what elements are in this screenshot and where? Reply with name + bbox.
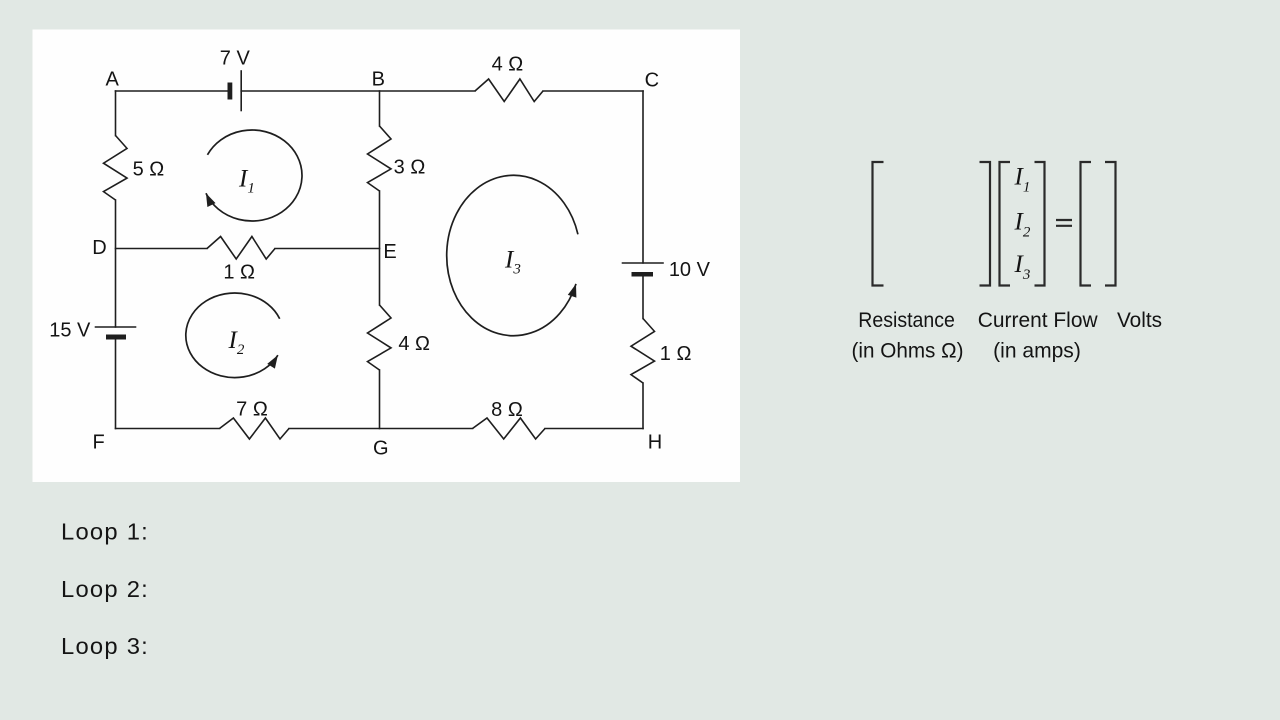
svg-text:5 Ω: 5 Ω	[133, 159, 165, 181]
wire A to battery B1 (top left)	[116, 90, 228, 92]
wire resistor 1ohm to E	[275, 248, 380, 250]
matrix bracket right of resistance matrix	[980, 162, 991, 286]
resistor R-GH 8ohm	[473, 418, 546, 439]
wire battery B3 to resistor 1ohm right	[642, 277, 644, 319]
wire resistor to H	[642, 383, 644, 429]
matrix bracket left of current matrix	[1000, 162, 1011, 286]
svg-text:10 V: 10 V	[669, 259, 711, 281]
matrix bracket right of volts matrix	[1105, 162, 1116, 286]
matrix bracket right of current matrix	[1035, 162, 1045, 286]
svg-text:7 V: 7 V	[220, 48, 251, 70]
resistor R-FG 7ohm	[220, 418, 290, 439]
svg-text:Loop 2:: Loop 2:	[61, 576, 149, 602]
wire resistor 5ohm to D to battery B2	[115, 200, 117, 327]
svg-text:D: D	[92, 237, 106, 259]
wire battery B2 to F	[115, 340, 117, 429]
svg-text:B: B	[372, 68, 385, 90]
wire C down to battery B3	[642, 91, 644, 263]
loop arrow I2 (counterclockwise)	[186, 293, 280, 378]
svg-text:A: A	[106, 69, 120, 91]
resistor R-CH 1ohm (right)	[631, 319, 655, 384]
svg-text:H: H	[648, 431, 662, 453]
svg-text:Resistance: Resistance	[858, 309, 955, 332]
wire B down to resistor 3ohm	[379, 91, 381, 126]
svg-text:7 Ω: 7 Ω	[236, 399, 268, 421]
resistor R-EG 4ohm (middle vertical)	[368, 305, 392, 370]
wire resistor 8ohm to H	[545, 428, 643, 430]
svg-text:8 Ω: 8 Ω	[491, 399, 523, 421]
resistor R-BE 3ohm	[368, 126, 392, 191]
svg-text:15 V: 15 V	[49, 320, 91, 342]
wire resistor to C	[543, 90, 643, 92]
white circuit panel	[33, 30, 741, 483]
battery B1 7V thick plate	[228, 83, 233, 100]
svg-text:E: E	[383, 241, 396, 263]
battery B3 10V long plate	[623, 262, 664, 264]
svg-text:F: F	[92, 431, 104, 453]
svg-text:Loop 3:: Loop 3:	[61, 633, 149, 659]
svg-text:Current Flow: Current Flow	[978, 309, 1099, 332]
wire resistor 4ohm to G	[379, 370, 381, 429]
resistor R-AD 5ohm (left)	[104, 136, 128, 201]
resistor R-BC 4ohm (top)	[475, 79, 543, 102]
resistor R-DE 1ohm (middle horizontal)	[207, 237, 275, 260]
loop arrow I1 (clockwise)	[206, 130, 302, 221]
loop arrow I3 (counterclockwise)	[447, 175, 578, 335]
wire resistor 3ohm through E to resistor 4ohm	[379, 191, 381, 305]
svg-text:C: C	[645, 70, 659, 92]
wire D to resistor 1ohm	[116, 248, 208, 250]
svg-text:(in Ohms Ω): (in Ohms Ω)	[852, 340, 964, 363]
svg-text:G: G	[373, 437, 389, 459]
svg-text:1 Ω: 1 Ω	[660, 343, 692, 365]
svg-text:Volts: Volts	[1117, 309, 1162, 332]
battery B3 10V thick plate	[632, 272, 654, 277]
svg-text:4 Ω: 4 Ω	[398, 333, 430, 355]
wire resistor 7ohm to G	[289, 428, 473, 430]
svg-text:3 Ω: 3 Ω	[394, 156, 426, 178]
svg-text:(in amps): (in amps)	[993, 340, 1081, 363]
battery B2 15V thick plate	[106, 335, 126, 340]
svg-text:Loop 1:: Loop 1:	[61, 519, 149, 545]
wire A down to resistor 5ohm	[115, 91, 117, 136]
matrix bracket left of volts matrix	[1081, 162, 1092, 286]
wire battery B1 to B to resistor 4ohm	[241, 90, 475, 92]
matrix bracket left of resistance matrix	[873, 162, 884, 286]
wire F to resistor 7ohm	[116, 428, 220, 430]
svg-text:4 Ω: 4 Ω	[492, 54, 524, 76]
svg-text:1 Ω: 1 Ω	[223, 261, 255, 283]
battery B2 15V long plate	[96, 326, 136, 328]
battery B1 7V long plate	[240, 71, 242, 111]
equals sign	[1056, 220, 1072, 226]
